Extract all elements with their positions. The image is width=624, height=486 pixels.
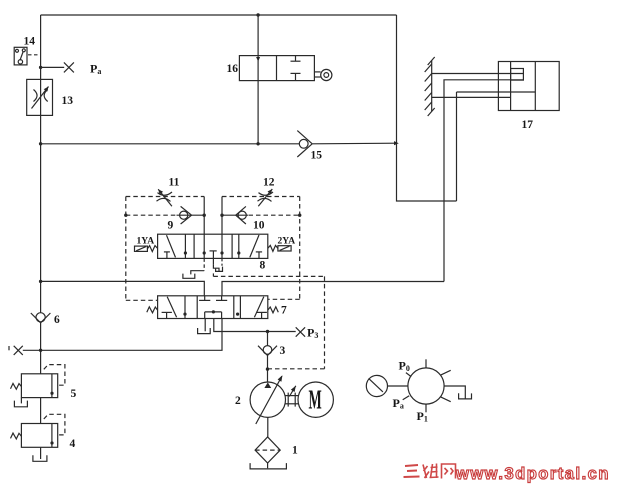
motor M xyxy=(298,382,333,417)
wire plug branch Pa xyxy=(41,66,65,68)
wire right vertical from top line xyxy=(397,15,457,201)
hydraulic block 17 xyxy=(498,62,559,111)
node pump supply at P3 line xyxy=(266,330,269,333)
wire block17 port line L4 xyxy=(432,96,511,98)
svg-text:13: 13 xyxy=(62,95,74,107)
wire block17 port line L2 going down xyxy=(444,80,523,282)
svg-text:4: 4 xyxy=(70,438,76,450)
svg-text:2YA: 2YA xyxy=(278,237,296,247)
wire long return to valve7 port B xyxy=(222,282,444,296)
svg-text:7: 7 xyxy=(281,305,287,317)
spring valve4 xyxy=(11,433,22,439)
svg-text:P3: P3 xyxy=(307,326,318,341)
wire top horizontal xyxy=(41,14,397,16)
node main line y144 xyxy=(39,142,42,145)
relief valve 5 xyxy=(21,374,57,398)
svg-text:2: 2 xyxy=(235,395,241,407)
drain valve4 tank xyxy=(33,447,47,461)
watermark hanzi san xyxy=(404,465,420,477)
wire down to check valve 3 xyxy=(267,332,269,346)
svg-text:17: 17 xyxy=(522,119,534,131)
spring valve5 xyxy=(11,383,22,389)
svg-text:12: 12 xyxy=(263,177,275,189)
pump 2 variable displacement xyxy=(250,375,285,424)
enclosure dashed big box around valve7 xyxy=(213,273,324,368)
wire valve7 T port down to left line xyxy=(23,319,222,351)
node left enclosure corner xyxy=(124,214,127,217)
node pilot takeoff xyxy=(266,367,269,370)
gauge selector switch xyxy=(403,359,451,412)
spring valve7 right xyxy=(268,307,279,313)
wall fixed support xyxy=(425,57,435,116)
tank below filter xyxy=(250,463,286,469)
svg-text:Pa: Pa xyxy=(90,62,101,77)
node plug branch xyxy=(39,66,42,69)
wire block17 port line L1 xyxy=(432,73,524,75)
filter 1 xyxy=(255,437,280,463)
svg-text:10: 10 xyxy=(253,220,265,232)
flow arrow into cylinder xyxy=(256,57,260,62)
cylinder 16 xyxy=(239,56,332,81)
coupling pump to motor xyxy=(286,386,299,407)
drain valve5 tank xyxy=(14,398,27,407)
svg-text:8: 8 xyxy=(260,260,266,272)
wire supply branch to valve7 port A xyxy=(41,281,205,295)
drain step and tank below valve8 left xyxy=(183,271,204,279)
wire dashed bypass right xyxy=(249,214,300,216)
svg-text:1YA: 1YA xyxy=(137,237,155,247)
pressure gauge xyxy=(366,375,387,396)
wire dashed link 14 to main line xyxy=(28,54,40,56)
throttle valve 11 xyxy=(157,189,173,206)
svg-text:9: 9 xyxy=(168,220,174,232)
drain stub dashed below valve8 B xyxy=(221,258,223,265)
wire cylinder feed vertical xyxy=(257,15,259,144)
wire valve7 P port down to supply xyxy=(214,319,296,332)
wire block17 port line L3 xyxy=(457,91,536,93)
wire valve8 port B vertical xyxy=(221,197,223,259)
watermark hanzi wei xyxy=(423,464,439,479)
svg-text:Pa: Pa xyxy=(393,396,404,411)
pilot dashed valve4 xyxy=(44,414,65,435)
plug X P3 xyxy=(296,327,305,336)
flow control valve 13 xyxy=(27,79,53,115)
wire valve8 port A vertical xyxy=(203,197,205,259)
svg-text:11: 11 xyxy=(169,177,180,189)
pilot dashed valve5 xyxy=(44,365,65,386)
check valve 3 xyxy=(258,346,277,356)
wire pump suction xyxy=(267,417,269,437)
enclosure dashed left box xyxy=(126,197,204,301)
relief valve 4 xyxy=(21,424,57,448)
check valve 6 xyxy=(31,313,51,323)
node supply branch xyxy=(39,280,42,283)
check valve 10 xyxy=(222,206,248,224)
drain stub dashed below valve8 A xyxy=(203,258,205,270)
node cylinder line meets y144 xyxy=(256,142,259,145)
wire gauge to selector xyxy=(388,385,408,387)
node junction top line to cylinder xyxy=(256,13,259,16)
wire main left vertical P line xyxy=(40,15,42,79)
svg-text:3: 3 xyxy=(280,345,286,357)
watermark hanzi wang xyxy=(442,464,456,479)
tank selector drain xyxy=(459,393,472,399)
plug X Pa xyxy=(64,62,74,72)
node right enclosure corner xyxy=(298,214,301,217)
svg-text:M: M xyxy=(309,385,322,415)
enclosure dashed right box xyxy=(222,197,300,300)
svg-text:6: 6 xyxy=(54,314,60,326)
directional valve 8 xyxy=(158,234,268,265)
wire dashed pilot to pump xyxy=(268,368,270,370)
spring valve7 left xyxy=(147,307,158,313)
wire between valve5 and valve4 xyxy=(40,398,42,424)
solenoid 2YA xyxy=(268,245,291,251)
node valve8 B feeder xyxy=(220,214,223,217)
node valve8 A feeder xyxy=(203,214,206,217)
svg-text:16: 16 xyxy=(227,63,239,75)
svg-text:P0: P0 xyxy=(399,359,410,374)
drain tank below valve8 center xyxy=(213,265,222,272)
arrow junction at right vertical xyxy=(394,141,399,145)
directional valve 7 xyxy=(158,296,268,319)
svg-text:www.3dportal.cn: www.3dportal.cn xyxy=(455,465,610,483)
wire second horizontal y144 xyxy=(41,143,300,145)
svg-text:1: 1 xyxy=(292,445,298,457)
svg-text:5: 5 xyxy=(71,388,77,400)
throttle valve 12 xyxy=(258,189,274,206)
svg-text:15: 15 xyxy=(311,150,323,162)
wire selector to tank xyxy=(444,386,465,399)
wire vertical to block 17 port L3 xyxy=(456,92,458,201)
check valve 9 xyxy=(177,206,205,224)
node tank return line xyxy=(39,349,42,352)
plug X left xyxy=(9,346,23,355)
check valve 15 xyxy=(297,131,312,157)
wire dashed bypass left xyxy=(126,214,177,216)
solenoid 1YA xyxy=(135,246,158,252)
drain below valve7 with tank xyxy=(198,319,211,334)
wire check valve 3 to pump xyxy=(267,356,269,383)
svg-text:14: 14 xyxy=(24,36,36,48)
pressure switch 14 xyxy=(14,47,27,65)
